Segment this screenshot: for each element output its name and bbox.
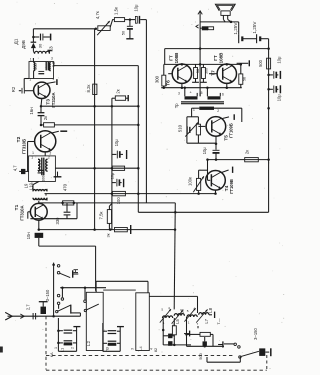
svg-text:Д1: Д1 [14,38,20,44]
svg-text:300: 300 [205,68,209,74]
svg-text:L4: L4 [138,346,143,351]
svg-text:2: 2 [48,155,50,159]
svg-text:10μ: 10μ [277,94,282,102]
svg-text:4: 4 [168,306,170,310]
svg-text:ГТ: ГТ [213,55,218,61]
svg-text:1: 1 [31,155,33,159]
svg-text:1,25V: 1,25V [252,21,257,34]
svg-text:2к: 2к [43,116,48,120]
svg-text:3к: 3к [106,233,111,237]
svg-text:10н: 10н [26,232,31,239]
svg-text:100к: 100к [187,177,192,186]
svg-text:330: 330 [55,217,60,225]
svg-text:Д9В: Д9В [21,40,26,49]
svg-text:1: 1 [32,151,34,155]
svg-text:Т6: Т6 [165,80,171,86]
svg-text:R2: R2 [11,86,16,92]
svg-text:2: 2 [217,109,219,113]
svg-text:L8: L8 [208,307,213,313]
svg-text:3–150: 3–150 [45,289,50,301]
svg-text:3: 3 [52,77,54,81]
svg-text:2,7: 2,7 [25,304,30,310]
svg-text:510: 510 [178,124,183,132]
svg-text:4: 4 [149,348,153,350]
svg-text:4,7к: 4,7к [95,11,100,19]
svg-text:L3: L3 [49,46,55,52]
svg-text:100: 100 [116,197,121,205]
svg-text:300: 300 [154,75,159,83]
svg-text:6: 6 [222,92,224,96]
svg-text:ГТ: ГТ [168,55,173,61]
svg-text:Т—: Т— [216,318,221,324]
svg-text:108В: 108В [218,52,223,64]
svg-text:470: 470 [63,183,68,191]
svg-text:1: 1 [188,320,190,324]
svg-text:7: 7 [197,322,199,326]
svg-text:5: 5 [161,308,163,312]
svg-text:2: 2 [50,152,52,156]
svg-text:30: 30 [38,43,43,48]
svg-text:1: 1 [54,347,58,349]
svg-text:1,5к: 1,5к [114,7,119,15]
svg-text:1000: 1000 [42,174,46,182]
svg-text:ГТ310Б: ГТ310Б [21,139,26,154]
svg-text:КА: КА [49,352,54,357]
svg-text:10μ: 10μ [134,4,139,12]
svg-text:Тр: Тр [174,103,179,108]
svg-text:ГТ310А: ГТ310А [51,92,56,107]
svg-text:4,7: 4,7 [13,165,18,171]
svg-text:10μ: 10μ [202,147,207,155]
svg-text:3–150: 3–150 [253,328,258,340]
svg-text:1: 1 [30,57,32,61]
svg-text:2: 2 [71,347,75,349]
svg-text:L7: L7 [204,318,209,323]
svg-text:56: 56 [241,77,246,81]
svg-text:82: 82 [154,348,158,352]
svg-text:2к: 2к [116,89,121,93]
svg-text:3: 3 [178,92,180,96]
svg-text:L2: L2 [86,341,91,347]
svg-text:10μ: 10μ [110,173,115,180]
svg-text:4: 4 [194,307,196,311]
svg-text:500: 500 [33,63,38,70]
svg-text:500: 500 [258,59,263,67]
svg-text:ГТ310А: ГТ310А [20,205,25,220]
svg-text:2к: 2к [245,150,250,154]
svg-text:8,2к: 8,2к [86,84,91,92]
svg-text:Т7: Т7 [210,70,215,76]
svg-text:Н: Н [73,268,80,273]
svg-text:+: + [189,91,192,95]
svg-text:ГТ109Б: ГТ109Б [228,123,233,138]
svg-text:Л3: Л3 [105,347,110,352]
svg-text:500: 500 [198,352,203,359]
svg-text:3: 3 [51,57,53,61]
svg-text:5: 5 [187,309,189,313]
svg-text:3: 3 [131,348,135,350]
svg-text:1,25V: 1,25V [233,22,238,35]
svg-text:5: 5 [201,91,203,95]
svg-text:ГТ109В: ГТ109В [229,179,234,194]
svg-text:7,5к: 7,5к [99,211,104,219]
svg-text:10μ: 10μ [277,56,282,64]
svg-text:56: 56 [196,69,200,73]
svg-text:108В: 108В [174,52,179,64]
svg-text:L1: L1 [60,348,65,352]
svg-text:L6: L6 [180,308,185,314]
svg-text:L5: L5 [175,319,180,324]
svg-text:10μ: 10μ [114,139,119,147]
svg-text:16н: 16н [29,107,34,115]
svg-text:50: 50 [121,31,125,35]
